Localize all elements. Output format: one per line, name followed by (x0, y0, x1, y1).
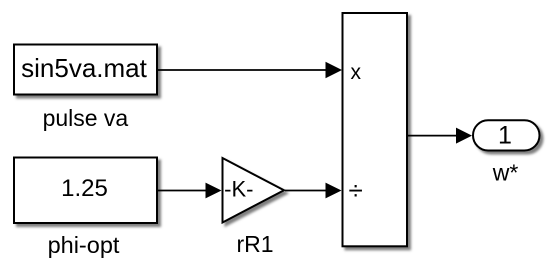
svg-text:phi-opt: phi-opt (48, 232, 120, 258)
svg-text:1.25: 1.25 (61, 175, 108, 202)
svg-text:-K-: -K- (224, 177, 253, 202)
svg-text:sin5va.mat: sin5va.mat (21, 53, 147, 83)
svg-text:w*: w* (492, 160, 519, 186)
svg-text:x: x (350, 61, 361, 84)
svg-text:pulse va: pulse va (43, 105, 129, 131)
svg-text:÷: ÷ (349, 175, 363, 205)
svg-text:1: 1 (498, 122, 512, 150)
svg-text:rR1: rR1 (236, 231, 273, 257)
